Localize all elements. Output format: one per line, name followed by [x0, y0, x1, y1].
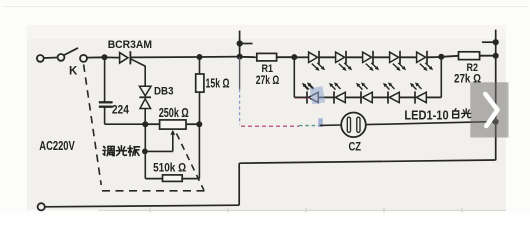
label dimmer board (tiao guang ban) [104, 147, 105, 148]
svg-text:27k Ω: 27k Ω [256, 73, 280, 87]
resistor 15k [199, 57, 201, 74]
wire [399, 96, 415, 98]
pot wiper arrow [145, 150, 173, 152]
LED7 bottom row [333, 91, 335, 103]
UI overlay next-arrow [470, 82, 508, 137]
vertical up to node D [440, 57, 442, 98]
svg-text:CZ: CZ [349, 140, 362, 154]
LED10 bottom row [414, 91, 416, 103]
wire R2 to right rail [480, 55, 496, 57]
wire LED top row [294, 56, 308, 58]
LED6 bottom row [306, 91, 308, 103]
wire cap bottom to node B [105, 123, 146, 125]
svg-text:224: 224 [112, 102, 129, 116]
wire [44, 57, 58, 60]
dimmer board dashed outline left [84, 65, 102, 186]
wire [318, 96, 334, 98]
wire CZ to right rail [366, 122, 496, 125]
right stub terminal [495, 30, 497, 56]
AC source terminal top [37, 55, 44, 62]
LED5 top row [417, 52, 426, 62]
resistor 510k [145, 178, 162, 180]
LED4 top row [390, 52, 399, 62]
LED1 top row [309, 52, 318, 62]
svg-text:BCR3AM: BCR3AM [108, 39, 152, 51]
LED8 bottom row [360, 91, 362, 103]
wire [372, 96, 388, 98]
triac BCR3AM [120, 53, 128, 64]
wire [346, 56, 363, 58]
capacitor 224 [104, 57, 106, 102]
node D [438, 54, 444, 60]
wire switch to node A [87, 56, 105, 58]
wire [373, 56, 390, 58]
pen mark vertical below stub [239, 57, 241, 89]
pen mark blue blob [318, 118, 323, 127]
node B [142, 121, 148, 127]
svg-text:510k Ω: 510k Ω [153, 161, 186, 175]
left vertical to 510k [144, 124, 146, 178]
wire to CZ [320, 124, 341, 126]
bottom wire [45, 205, 239, 207]
AC source terminal bottom [38, 203, 45, 210]
faint top scan line [3, 6, 527, 8]
mid return wire [239, 160, 496, 163]
node CZ right rail [493, 119, 499, 125]
right rail vertical [495, 56, 497, 161]
wire bottom row to right [426, 96, 441, 98]
node A [102, 54, 108, 60]
svg-text:250k Ω: 250k Ω [159, 106, 189, 120]
wire to left stub node [200, 56, 240, 58]
resistor R2 [459, 52, 480, 60]
wiper node [142, 149, 148, 155]
faint page divider [98, 209, 506, 211]
wire triac to node at 15k top [130, 56, 199, 58]
pen mark dashed horizontal to CZ [241, 125, 299, 127]
dimmer board dashed outline right [177, 134, 204, 191]
switch K [58, 54, 65, 61]
right vertical pot to 510k [198, 124, 200, 178]
LED2 top row [336, 52, 345, 62]
svg-text:K: K [69, 65, 78, 77]
wire stub to R1 [240, 56, 257, 58]
wire node A to triac [105, 56, 120, 58]
socket CZ [341, 113, 366, 138]
blue highlight artifact on LED6 [310, 86, 326, 104]
dimmer board dashed outline bottom [102, 190, 206, 192]
svg-text:LED1-10: LED1-10 [404, 107, 448, 122]
riser [238, 163, 240, 205]
wire [345, 96, 361, 98]
node right rail top [493, 53, 499, 59]
left stub terminal [239, 31, 241, 57]
diac DB3 [139, 86, 151, 96]
node C [291, 54, 297, 60]
svg-text:AC220V: AC220V [39, 138, 75, 153]
gate wire to DB3 [130, 59, 145, 66]
pot right node [196, 121, 202, 127]
vertical node C down [293, 57, 295, 97]
LED9 bottom row [387, 91, 389, 103]
svg-text:15k Ω: 15k Ω [206, 76, 230, 90]
wire [400, 56, 417, 58]
wire [319, 56, 336, 58]
svg-text:DB3: DB3 [154, 86, 174, 98]
wire node D to R2 [441, 56, 458, 57]
wire top row to node D [427, 56, 441, 58]
wire LED bottom row [294, 96, 307, 98]
node 15k top [197, 54, 203, 60]
resistor R1 [257, 53, 277, 61]
wire R1 to node C [277, 56, 295, 58]
potentiometer 250k [145, 123, 159, 125]
node left stub [237, 54, 243, 60]
pen pink tinge [295, 97, 311, 99]
LED3 top row [363, 52, 372, 62]
